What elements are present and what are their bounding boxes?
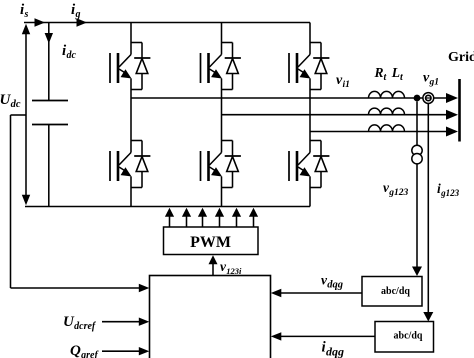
svg-text:vi1: vi1 xyxy=(336,73,350,90)
svg-text:ig123: ig123 xyxy=(437,181,460,198)
svg-text:idqg: idqg xyxy=(322,340,344,358)
svg-text:PWM: PWM xyxy=(190,234,231,251)
svg-text:Grid: Grid xyxy=(448,50,474,65)
svg-text:is: is xyxy=(20,2,28,20)
svg-text:v123i: v123i xyxy=(220,259,242,276)
svg-text:ig: ig xyxy=(71,2,80,20)
svg-text:abc/dq: abc/dq xyxy=(394,331,423,342)
svg-text:vdqg: vdqg xyxy=(321,273,343,291)
svg-text:Udcref: Udcref xyxy=(63,314,97,332)
svg-text:vg123: vg123 xyxy=(383,180,409,198)
svg-text:vg1: vg1 xyxy=(423,71,439,88)
svg-text:abc/dq: abc/dq xyxy=(381,286,410,297)
svg-text:idc: idc xyxy=(62,43,76,61)
svg-text:Qgref: Qgref xyxy=(70,343,99,358)
svg-text:RtLt: RtLt xyxy=(374,65,405,83)
svg-text:Udc: Udc xyxy=(0,92,21,110)
